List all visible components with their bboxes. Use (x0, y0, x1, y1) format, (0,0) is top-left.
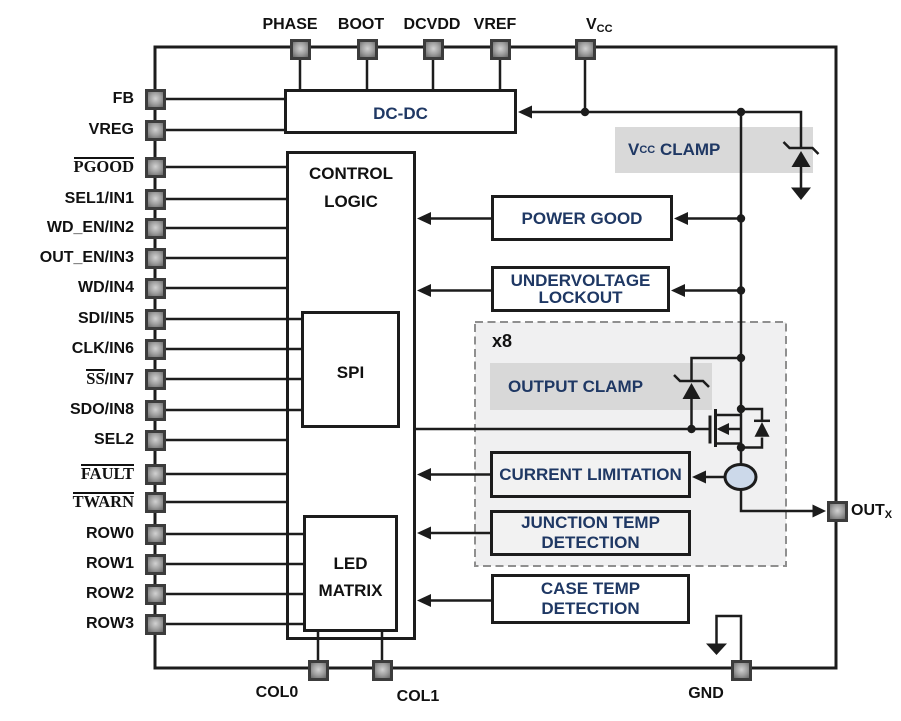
label SDI/IN5 (0, 309, 134, 329)
pin FB (145, 89, 166, 110)
pin VCC (575, 39, 596, 60)
pin ROW0 (145, 524, 166, 545)
label OUTx (851, 502, 892, 521)
wire WD_EN/IN2 pin to control (165, 227, 286, 230)
block U1 DC-DC (284, 89, 517, 134)
wire VREF stub (499, 59, 502, 89)
Vcc clamp shaded band (615, 127, 813, 173)
label VREF (435, 16, 555, 34)
pin VREG (145, 120, 166, 141)
junction Vcc bus top (737, 108, 745, 116)
label ROW2 (0, 584, 134, 604)
wire control to junction temp (430, 532, 491, 535)
wire CLK/IN6 pin to SPI (165, 348, 301, 351)
pin DCVDD (423, 39, 444, 60)
pin SDI/IN5 (145, 309, 166, 330)
wire uvlo to bus (684, 289, 741, 292)
label DCVDD (372, 16, 492, 34)
label COL1 (378, 688, 458, 706)
wire power good to bus (687, 217, 741, 220)
junction output clamp (737, 354, 745, 362)
label WD_EN/IN2 (0, 218, 134, 238)
wire PGOOD pin to control (165, 166, 286, 169)
x8 region dashed outline (475, 322, 786, 566)
pin SEL2 (145, 430, 166, 451)
wire ROW1 pin to LED matrix (165, 563, 303, 566)
arrowhead into uvlo (671, 284, 685, 297)
pin PHASE (290, 39, 311, 60)
junction Vcc stub (581, 108, 589, 116)
pin CLK/IN6 (145, 339, 166, 360)
wire DCVDD stub (432, 59, 435, 89)
pin OUT_EN/IN3 (145, 248, 166, 269)
wire ROW2 pin to LED matrix (165, 593, 303, 596)
chip boundary (155, 47, 836, 668)
wire ROW0 pin to LED matrix (165, 533, 303, 536)
label OUT_EN/IN3 (0, 248, 134, 268)
label GND (666, 685, 746, 703)
wire PHASE stub (299, 59, 302, 89)
label VCC (586, 16, 613, 35)
label SS/IN7 (0, 369, 134, 389)
wire Vcc stub (584, 59, 587, 112)
block U9 CASE TEMP DETECTION (491, 574, 690, 624)
block U4 LED MATRIX (303, 515, 398, 632)
pin VREF (490, 39, 511, 60)
arrowhead into DC-DC (518, 106, 532, 119)
junction power good (737, 214, 745, 222)
block U6 UNDERVOLTAGE LOCKOUT (491, 266, 670, 312)
output clamp label (508, 363, 643, 410)
diode D3 body diode (741, 409, 770, 448)
wire WD/IN4 pin to control (165, 287, 286, 290)
wire BOOT stub (366, 59, 369, 89)
wire SDI/IN5 pin to SPI (165, 318, 301, 321)
block U7 CURRENT LIMITATION (490, 451, 691, 498)
current source I1 (725, 465, 756, 490)
wire OUT_EN/IN3 pin to control (165, 257, 286, 260)
wire SEL2 pin to control (165, 439, 286, 442)
wire control to uvlo (430, 289, 492, 292)
pin ROW3 (145, 614, 166, 635)
label ROW0 (0, 524, 134, 544)
label SEL2 (0, 430, 134, 450)
pin SDO/IN8 (145, 400, 166, 421)
arrowhead into control from power good (417, 212, 431, 225)
wire gate drive (416, 428, 710, 431)
wire SDO/IN8 pin to SPI (165, 409, 301, 412)
wire control to case temp (430, 599, 492, 602)
arrowhead into control from current limitation (417, 468, 431, 481)
wire FAULT pin to control (165, 473, 286, 476)
label FAULT (0, 464, 134, 484)
output clamp shaded band (490, 363, 712, 410)
wire VREG pin to DC-DC (165, 129, 284, 132)
wire Vcc bus vertical (740, 112, 743, 465)
wire control to current limitation (430, 473, 491, 476)
label SDO/IN8 (0, 400, 134, 420)
arrowhead into control from junction temp (417, 527, 431, 540)
junction mosfet source (737, 443, 745, 451)
pin COL0 (308, 660, 329, 681)
arrowhead into OUTx pin (813, 505, 827, 518)
pin ROW2 (145, 584, 166, 605)
wire LED matrix to COL1 (381, 632, 384, 660)
junction gate node (687, 425, 695, 433)
pin TWARN (145, 492, 166, 513)
label BOOT (301, 16, 421, 34)
label FB (0, 89, 134, 109)
label VREG (0, 120, 134, 140)
pin FAULT (145, 464, 166, 485)
transistor Q1 output MOSFET (710, 409, 741, 447)
pin GND (731, 660, 752, 681)
zener diode D2 output clamp (674, 375, 709, 429)
arrowhead GND symbol (706, 644, 727, 656)
wire Vcc feed to DC-DC (531, 112, 801, 148)
arrowhead into control from case temp (417, 594, 431, 607)
wire FB pin to DC-DC (165, 98, 284, 101)
pin OUTx (827, 501, 848, 522)
pin SEL1/IN1 (145, 189, 166, 210)
junction mosfet drain (737, 405, 745, 413)
label ROW1 (0, 554, 134, 574)
junction uvlo (737, 286, 745, 294)
wire TWARN pin to control (165, 501, 286, 504)
label CLK/IN6 (0, 339, 134, 359)
wire LED matrix to COL0 (317, 632, 320, 660)
wire SEL1/IN1 pin to control (165, 198, 286, 201)
arrowhead into power good (674, 212, 688, 225)
block U5 POWER GOOD (491, 195, 673, 241)
pin WD/IN4 (145, 278, 166, 299)
label x8 (492, 331, 512, 352)
arrowhead into control from uvlo (417, 284, 431, 297)
block U2 CONTROL LOGIC (286, 151, 416, 640)
wire current source to current limitation (705, 476, 725, 479)
block U8 JUNCTION TEMP DETECTION (490, 510, 691, 556)
label ROW3 (0, 614, 134, 634)
wire output clamp branch (692, 358, 742, 380)
pin ROW1 (145, 554, 166, 575)
pin COL1 (372, 660, 393, 681)
label WD/IN4 (0, 278, 134, 298)
wire GND hook (717, 616, 742, 660)
label PHASE (230, 16, 350, 34)
pin WD_EN/IN2 (145, 218, 166, 239)
zener diode D1 Vcc clamp (784, 142, 819, 189)
wire current source to OUTx (741, 489, 814, 511)
label COL0 (237, 684, 317, 702)
pin PGOOD (145, 157, 166, 178)
label PGOOD (0, 157, 134, 177)
Vcc clamp label (628, 127, 720, 173)
label TWARN (0, 492, 134, 512)
wire ROW3 pin to LED matrix (165, 623, 303, 626)
arrow to substrate below D1 (791, 188, 811, 201)
block U3 SPI (301, 311, 400, 428)
label SEL1/IN1 (0, 189, 134, 209)
wire SS/IN7 pin to SPI (165, 378, 301, 381)
x8 repeated output stage region (475, 322, 786, 566)
arrowhead into current limitation (692, 471, 706, 484)
pin BOOT (357, 39, 378, 60)
pin SS/IN7 (145, 369, 166, 390)
wire control to power good (430, 217, 492, 220)
